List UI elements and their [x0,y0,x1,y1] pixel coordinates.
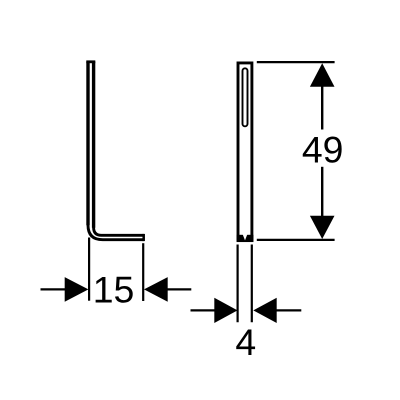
dim 4: left extension line [237,245,239,323]
left view: L-profile outer line, vertical segment [86,62,89,226]
dim 15: left arrowhead [65,277,89,302]
svg-text:49: 49 [302,128,344,170]
dim 15: left arrow line [41,288,67,290]
dim 15: right extension line [142,243,144,301]
left view: L-profile inner line, vertical segment [92,62,95,228]
left view: profile top end cap [86,60,95,63]
right view: slot [243,68,248,126]
right view: bottom bend band [237,235,254,242]
left view: L-profile outer line, bend and bottom segment [88,225,144,240]
dim 15: right arrowhead [144,277,168,302]
dim 4: right extension line [251,245,253,323]
left view: L-profile inner line, bend and top segment [94,228,144,236]
dim 15: right arrow line [167,288,191,290]
dim 49: top arrowhead [310,63,335,87]
right view: bend notch (white V) [243,234,248,240]
dim 49: upper line segment [321,86,323,130]
dim 4: left arrowhead [214,298,237,323]
dim 15: left extension line [88,238,90,301]
dim 4: right arrowhead [253,298,276,323]
right view: plate outline [238,63,252,241]
left view: profile right end cap [142,234,145,241]
dim 49: bottom arrowhead [310,216,335,239]
dim 4: left arrow line [191,309,217,311]
dim 49: top extension line [257,61,335,63]
dim 49: lower line segment [321,167,323,217]
dim 49: bottom extension line [257,239,335,241]
dim 4: right arrow line [276,309,301,311]
svg-text:4: 4 [235,321,256,363]
svg-text:15: 15 [93,268,135,310]
